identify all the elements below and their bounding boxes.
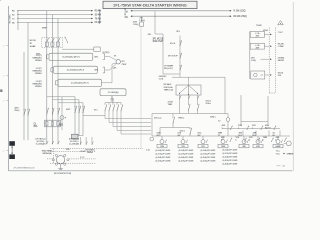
svg-text:(4-2 A)-2F1 5W6: (4-2 A)-2F1 5W6 [179,156,195,159]
svg-text:DIGITAL: DIGITAL [278,56,285,59]
svg-text:MC AUX: MC AUX [164,83,172,86]
svg-text:52M a: 52M a [210,117,216,119]
svg-text:(4-1 B)-2F1 4W5: (4-1 B)-2F1 4W5 [223,153,239,155]
svg-text:1C-16SQ(E): 1C-16SQ(E) [35,143,45,145]
svg-text:(4-2 A)-2F1 5W6: (4-2 A)-2F1 5W6 [223,156,239,159]
svg-text:52S aux: 52S aux [154,118,162,120]
svg-text:(4-1 A)-2F1 4W5: (4-1 A)-2F1 4W5 [201,149,217,152]
svg-text:2: 2 [3,76,4,78]
svg-text:4C-25SQ(3C) (2F1,7): 4C-25SQ(3C) (2F1,7) [62,57,80,59]
svg-text:S0 4W: S0 4W [95,14,102,16]
svg-text:TB(T) PANEL: TB(T) PANEL [42,149,54,152]
svg-text:AUTO: AUTO [265,127,271,130]
svg-text:PANEL(H2): PANEL(H2) [33,70,42,73]
svg-text:(4-2 B)-2F1 5W6: (4-2 B)-2F1 5W6 [156,160,172,162]
svg-text:4W6: 4W6 [256,47,260,49]
svg-text:(4-1 A)-2F1 4W5: (4-1 A)-2F1 4W5 [223,149,239,152]
svg-text:3P1 STOP: 3P1 STOP [168,55,178,57]
svg-text:WIRING: WIRING [35,73,42,75]
svg-text:(4P): (4P) [113,68,116,70]
svg-text:(4-1 B)-2F1 4W5: (4-1 B)-2F1 4W5 [179,153,195,155]
svg-text:A 1: A 1 [283,165,285,168]
svg-text:RLY: RLY [239,135,243,137]
svg-text:TMR (Y-D): TMR (Y-D) [164,89,174,91]
svg-text:PB (LOC): PB (LOC) [164,68,173,70]
svg-text:TR-M2: TR-M2 [256,25,263,27]
svg-text:(4-1 A)-2F1 4W5: (4-1 A)-2F1 4W5 [156,149,172,152]
svg-text:100AF: 100AF [30,45,37,48]
svg-text:4C-25SQ(3C) (2F1,7): 4C-25SQ(3C) (2F1,7) [67,70,85,72]
svg-text:43R: 43R [256,146,260,148]
svg-text:PNL: PNL [278,75,281,77]
svg-text:COMM: COMM [278,46,284,48]
svg-text:WIRING: WIRING [87,152,94,154]
svg-text:(4-2 B)-2F1 5W6: (4-2 B)-2F1 5W6 [201,160,217,162]
svg-text:4W5: 4W5 [66,149,70,151]
svg-text:1C-16SQ(E): 1C-16SQ(E) [69,143,79,145]
svg-text:52D: 52D [201,146,205,148]
svg-text:LP START: LP START [164,65,174,68]
svg-text:2: 2 [3,100,4,102]
svg-text:LP-TB(T): LP-TB(T) [102,52,109,54]
svg-text:(4-1 B)-2F1 4W5: (4-1 B)-2F1 4W5 [201,153,217,155]
svg-text:4W5: 4W5 [256,36,260,38]
svg-text:4W5: 4W5 [94,56,98,58]
svg-text:TO LP: TO LP [278,32,284,34]
svg-text:25SQ: 25SQ [14,110,20,112]
svg-text:N0 4W: N0 4W [95,22,102,24]
svg-text:MC: MC [178,135,182,137]
svg-text:LAMP: LAMP [275,145,281,148]
svg-text:49 OL: 49 OL [170,43,176,45]
svg-text:(4-2 B)-2F1 5W6: (4-2 B)-2F1 5W6 [223,160,239,162]
svg-text:WIRING: WIRING [35,60,42,62]
svg-text:SPARE: SPARE [287,152,294,155]
svg-text:WIRING(B): WIRING(B) [42,153,52,155]
svg-text:1C-16SQ(E): 1C-16SQ(E) [108,92,119,94]
svg-text:R0 4W: R0 4W [95,11,102,13]
svg-text:TMR: TMR [221,146,226,148]
svg-text:(4-1 A)-2F1 4W5: (4-1 A)-2F1 4W5 [179,149,195,152]
svg-text:N 1W-1.5SQ: N 1W-1.5SQ [234,11,246,13]
svg-text:52M: 52M [160,146,164,148]
svg-text:TMR: TMR [168,104,173,106]
svg-text:TMR a: TMR a [178,118,185,120]
svg-text:RLY: RLY [253,135,257,137]
svg-text:1.5SQ: 1.5SQ [133,24,139,26]
svg-text:(4-2 A)-2F1 5W6: (4-2 A)-2F1 5W6 [156,156,172,159]
svg-text:2F1-75KW WIRING S=1/10: 2F1-75KW WIRING S=1/10 [14,167,35,169]
svg-text:2: 2 [3,150,4,152]
svg-text:PANEL(H3): PANEL(H3) [33,83,42,86]
svg-text:4W-M: 4W-M [263,30,268,32]
svg-text:WIRING: WIRING [35,86,42,88]
svg-text:52S b: 52S b [206,103,212,105]
svg-text:2: 2 [3,45,4,47]
svg-text:U V W: U V W [80,151,85,153]
svg-text:MCCB: MCCB [30,40,37,42]
svg-text:2F1-75KW STAR-DELTA STARTER WI: 2F1-75KW STAR-DELTA STARTER WIRING [113,3,186,7]
svg-text:1.5SQ: 1.5SQ [139,20,145,22]
svg-text:4C-25SQ(3C) (2F1,7): 4C-25SQ(3C) (2F1,7) [71,83,89,85]
svg-text:(2F1-75KW MOTOR): (2F1-75KW MOTOR) [54,173,72,175]
svg-text:(4-2 B)-2F1 5W6: (4-2 B)-2F1 5W6 [179,160,195,162]
svg-text:MC: MC [157,135,161,137]
svg-text:T0 4W: T0 4W [95,18,102,20]
svg-text:R0 1W-1.5SQ: R0 1W-1.5SQ [234,16,247,18]
svg-text:1.5SQ: 1.5SQ [251,60,256,62]
svg-text:METER: METER [278,60,285,62]
svg-text:65A: 65A [34,125,38,128]
svg-text:30AF 15AT: 30AF 15AT [153,40,164,43]
svg-text:75KW: 75KW [121,64,126,66]
svg-text:5W6: 5W6 [94,69,98,71]
svg-text:PANEL(H1): PANEL(H1) [33,57,42,60]
svg-text:MC: MC [198,135,202,137]
svg-text:(4-2 A)-2F1 5W6: (4-2 A)-2F1 5W6 [201,156,217,159]
svg-text:(4-1 B)-2F1 4W5: (4-1 B)-2F1 4W5 [156,153,172,155]
svg-text:(4-3 A)-2F1 5W6: (4-3 A)-2F1 5W6 [223,162,239,165]
